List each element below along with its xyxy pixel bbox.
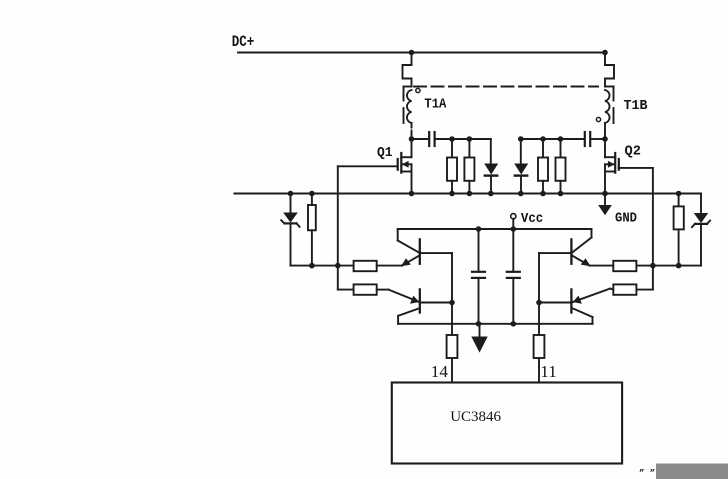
node junction R2 bottom bbox=[467, 191, 473, 197]
transistor Q3 NPN upper-left bbox=[398, 229, 452, 266]
wire Q1 gate bar bbox=[397, 159, 399, 170]
wire R7 to Q3 emitter bbox=[377, 265, 402, 267]
transistor Q1 MOSFET bbox=[338, 139, 412, 194]
node junction Q1 source rail bbox=[409, 191, 415, 197]
resistor R9 bbox=[613, 261, 636, 271]
zener ZD2 bbox=[692, 194, 710, 266]
node junction R6 top bbox=[676, 191, 682, 197]
wire Q1 source bbox=[401, 171, 411, 173]
wire T1B core bar bbox=[613, 87, 615, 101]
node junction Q2 source rail bbox=[602, 191, 608, 197]
wire R8 to Q4 emitter bbox=[377, 289, 389, 291]
wire R9 to gate line and zener bbox=[636, 265, 701, 267]
node junction R1 top bbox=[449, 136, 455, 142]
wire Q2 gate bar bbox=[618, 159, 620, 170]
node junction C4 bottom bbox=[511, 321, 517, 327]
svg-text:Q2: Q2 bbox=[625, 144, 641, 160]
wire T1B bottom lead bbox=[604, 123, 606, 139]
resistor R5 bbox=[308, 191, 316, 266]
ground GND symbol bbox=[604, 194, 606, 206]
capacitor C3 bbox=[478, 229, 480, 271]
wire T1B core stub bbox=[605, 86, 614, 88]
wire Q3 emitter bbox=[402, 256, 419, 266]
node Vcc terminal bbox=[511, 214, 516, 219]
wire Q4 emitter bbox=[389, 290, 420, 302]
wire Q2 drain bbox=[604, 139, 606, 157]
node junction C3 bottom bbox=[476, 321, 482, 327]
wire Q6 collector bbox=[573, 309, 593, 318]
wire Q1 gate lead bbox=[338, 165, 398, 167]
wire T1B jog bbox=[605, 65, 614, 87]
svg-text:” ”: ” ” bbox=[639, 469, 655, 479]
wire driver bottom bus bbox=[398, 323, 592, 325]
transformer T1B bbox=[596, 50, 648, 139]
capacitor C2 bbox=[584, 132, 586, 146]
node junction D2 top bbox=[518, 136, 524, 142]
node junction Q4 base bbox=[449, 300, 455, 306]
transistor Q2 MOSFET bbox=[605, 139, 653, 194]
node junction R2 top bbox=[467, 136, 473, 142]
wire snubber bus left bbox=[412, 138, 429, 140]
svg-text:11: 11 bbox=[540, 362, 557, 381]
node junction ZD1 top bbox=[288, 191, 294, 197]
node junction C3 bus bbox=[476, 226, 482, 232]
wire Q5 base lead bbox=[539, 252, 571, 254]
node junction Vcc bus bbox=[511, 226, 517, 232]
svg-text:Vcc: Vcc bbox=[521, 211, 543, 227]
resistor R6 bbox=[674, 191, 684, 266]
wire Q5 emitter to R9 bbox=[590, 265, 614, 267]
node junction D2 bottom bbox=[518, 191, 524, 197]
wire T1A core stub bbox=[404, 86, 412, 88]
wire gate drive left lower row bbox=[291, 265, 354, 267]
node junction R4 top bbox=[558, 136, 564, 142]
resistor R3 bbox=[542, 139, 544, 158]
wire Q1 channel bar bbox=[400, 153, 402, 173]
wire Q2 channel bar bbox=[614, 153, 616, 173]
wire C2 to T1B bbox=[591, 138, 605, 140]
wire main ground rail bbox=[234, 193, 701, 195]
node junction R3 top bbox=[540, 136, 546, 142]
wire Q1 drain bbox=[411, 139, 413, 157]
wire Q4 base lead bbox=[420, 302, 452, 304]
svg-text:DC+: DC+ bbox=[232, 33, 255, 51]
wire Q5 base bar bbox=[570, 239, 572, 263]
wire snubber bus right bbox=[521, 138, 584, 140]
wire Q3 base lead bbox=[420, 252, 452, 254]
wire Q1 bulk arrow bbox=[402, 163, 412, 165]
node T1A phase dot bbox=[416, 88, 420, 92]
transistor Q5 NPN upper-right bbox=[539, 229, 592, 266]
op-amp U1 UC3846 box bbox=[392, 383, 622, 464]
resistor R7 bbox=[354, 261, 377, 271]
wire base drive left vertical to pin 14 bbox=[451, 253, 453, 382]
node junction gate line wire1 bbox=[335, 263, 341, 269]
wire Q4 collector bbox=[398, 309, 419, 316]
resistor R11 pin14 bbox=[447, 335, 458, 358]
node junction R3 bottom bbox=[540, 191, 546, 197]
node T1B phase dot bbox=[596, 117, 600, 121]
wire Q2 bulk arrow bbox=[605, 163, 615, 165]
node junction T1A-bottom bbox=[409, 136, 415, 142]
node junction R6 bottom bbox=[676, 263, 682, 269]
wire T1A jog bbox=[403, 65, 412, 87]
diode D2 bbox=[520, 139, 522, 164]
node junction Q6 base bbox=[536, 300, 542, 306]
wire Q2 gate vertical bbox=[652, 168, 654, 290]
wire driver top bus bbox=[398, 228, 592, 230]
decorative corner block bbox=[656, 464, 728, 479]
wire DC+ top rail bbox=[238, 52, 605, 54]
node junction T1B bottom bbox=[602, 136, 608, 142]
resistor R10 bbox=[613, 284, 636, 294]
wire T1B top lead bbox=[604, 53, 606, 66]
svg-text:Q1: Q1 bbox=[377, 145, 393, 161]
ground driver common bbox=[479, 324, 481, 337]
node junction R1 bottom bbox=[449, 191, 455, 197]
winding T1B bbox=[605, 90, 610, 123]
wire T1A top lead bbox=[411, 53, 413, 66]
wire R10 to Q6 emitter bbox=[610, 289, 613, 290]
wire Q6 base bar bbox=[570, 289, 572, 312]
resistor R8 bbox=[354, 284, 377, 294]
svg-text:T1B: T1B bbox=[624, 98, 649, 114]
wire transformer core dashed line bbox=[414, 86, 598, 88]
wire Q6 base lead bbox=[539, 302, 571, 304]
node junction R5-wire bbox=[309, 263, 315, 269]
wire Q6 emitter bbox=[573, 289, 610, 302]
wire base drive right vertical to pin 11 bbox=[538, 253, 540, 382]
wire T1A core bar bbox=[403, 87, 405, 101]
transformer T1A bbox=[403, 50, 447, 139]
node junction T1A-rail bbox=[409, 50, 415, 56]
resistor R1 bbox=[451, 139, 453, 158]
wire Q3 base bar bbox=[419, 239, 421, 263]
wire gate drive left second row bbox=[338, 289, 354, 291]
node junction R4 bottom bbox=[558, 191, 564, 197]
svg-text:14: 14 bbox=[431, 362, 449, 381]
wire C1 to resistors bbox=[436, 138, 491, 140]
svg-text:GND: GND bbox=[615, 211, 637, 227]
resistor R12 pin11 bbox=[534, 335, 545, 358]
node junction gate line wire right bbox=[650, 263, 656, 269]
capacitor C1 bbox=[428, 132, 430, 146]
wire Q2 gate lead bbox=[619, 167, 653, 169]
wire Q5 emitter bbox=[572, 256, 590, 266]
svg-text:T1A: T1A bbox=[424, 97, 447, 113]
wire gate right second row bbox=[636, 289, 653, 291]
zener ZD1 bbox=[281, 191, 299, 266]
diode D1 bbox=[490, 139, 492, 164]
svg-text:UC3846: UC3846 bbox=[450, 409, 501, 425]
capacitor C4 bbox=[512, 229, 514, 271]
node junction R5 top bbox=[309, 191, 315, 197]
resistor R4 bbox=[560, 139, 562, 158]
wire Q4 base bar bbox=[419, 289, 421, 312]
wire Q1 gate vertical bbox=[337, 166, 339, 289]
transistor Q6 PNP lower-right bbox=[539, 289, 610, 324]
resistor R2 bbox=[468, 139, 470, 158]
node junction T1B-rail bbox=[602, 50, 608, 56]
wire T1A bottom lead bbox=[411, 123, 413, 134]
node junction D1 bottom bbox=[488, 191, 494, 197]
transistor Q4 PNP lower-left bbox=[389, 289, 453, 323]
wire Q2 source bbox=[605, 171, 615, 173]
winding T1A bbox=[407, 90, 412, 123]
